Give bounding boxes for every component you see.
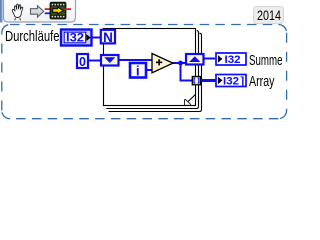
for-loop stacked frame 3: [109, 33, 202, 111]
wire to tunnel: [180, 80, 193, 82]
array wire tunnel to Array: [201, 79, 216, 82]
for-loop stacked frame 2: [106, 31, 198, 109]
wire shift register to add upper input: [118, 59, 153, 61]
loop count terminal N: [101, 30, 115, 45]
constant 0: [77, 54, 88, 69]
sprocket holes top: [52, 4, 54, 6]
wire control to N: [93, 37, 102, 39]
svg-text:N: N: [103, 30, 113, 45]
wire junction down: [180, 62, 182, 81]
svg-text:2014: 2014: [257, 8, 281, 23]
right shift register (up arrow): [186, 54, 204, 65]
wire right shift register to Summe: [204, 58, 215, 60]
retain-wire-values icon: red wire right: [65, 8, 71, 10]
retain-wire-values icon: red wire left: [45, 8, 51, 10]
window edge blue strip: [0, 0, 3, 23]
select arrow icon: [31, 6, 44, 17]
annotation frame 2014 (dashed rounded rect): [2, 25, 287, 119]
sprocket holes bottom: [52, 16, 54, 18]
retain-wire-values icon: film frame: [50, 2, 66, 19]
add function: [152, 54, 173, 73]
svg-text:I32: I32: [66, 31, 84, 45]
auto-index tunnel: [192, 77, 200, 85]
svg-text:0: 0: [79, 55, 86, 69]
svg-text:Array: Array: [249, 74, 275, 90]
svg-text:Durchläufe: Durchläufe: [5, 29, 60, 45]
hand tool icon: [12, 4, 23, 20]
svg-text:i: i: [136, 63, 140, 78]
control terminal Durchläufe I32: [61, 30, 92, 46]
svg-text:Summe: Summe: [249, 53, 283, 69]
svg-text:I32: I32: [223, 75, 239, 87]
svg-text:I32: I32: [225, 54, 241, 66]
toolbar panel: [4, 0, 76, 22]
wire i to add lower input: [146, 69, 153, 71]
svg-text:]: ]: [241, 75, 245, 87]
yellow step arrow: [53, 7, 63, 14]
label 2014 background: [254, 7, 284, 24]
junction dot: [178, 61, 183, 66]
indicator terminal Summe I32: [216, 53, 246, 66]
left shift register (down arrow): [101, 55, 119, 66]
retain-wire-values icon: blue wire left: [45, 12, 50, 14]
indicator terminal Array [I32]: [216, 75, 246, 88]
for-loop corner fold (dog-ear): [184, 94, 196, 105]
wire add output to junction: [172, 62, 185, 64]
wire 0 to left shift register: [89, 60, 102, 62]
iteration terminal i: [130, 63, 146, 78]
for-loop border (main frame): [104, 29, 196, 106]
